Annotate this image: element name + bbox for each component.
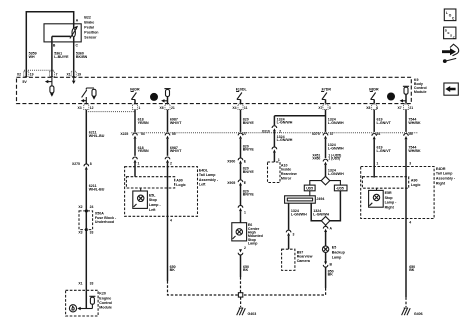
svg-text:1: 1 xyxy=(376,161,378,165)
svg-text:19: 19 xyxy=(30,72,34,76)
svg-text:WH/L-BU: WH/L-BU xyxy=(89,134,105,138)
svg-text:X4: X4 xyxy=(232,106,236,110)
svg-text:BK: BK xyxy=(170,268,176,272)
svg-text:Module: Module xyxy=(99,306,112,310)
svg-text:Stop: Stop xyxy=(149,198,158,202)
svg-text:Stop: Stop xyxy=(385,196,394,200)
svg-text:X275: X275 xyxy=(72,162,80,166)
svg-text:4: 4 xyxy=(376,106,378,110)
svg-text:Assembly -: Assembly - xyxy=(199,178,219,182)
svg-text:UD5: UD5 xyxy=(306,187,313,191)
svg-text:A10: A10 xyxy=(281,163,288,167)
svg-text:L-GN/VT: L-GN/VT xyxy=(377,149,392,153)
svg-text:21: 21 xyxy=(171,106,175,110)
svg-text:A90: A90 xyxy=(176,178,183,182)
svg-text:BK: BK xyxy=(243,268,249,272)
svg-text:G406: G406 xyxy=(414,312,423,316)
svg-text:Lamp -: Lamp - xyxy=(385,201,398,205)
svg-text:33: 33 xyxy=(90,231,94,235)
svg-text:YE/BN: YE/BN xyxy=(138,121,149,125)
svg-text:F8DR: F8DR xyxy=(369,87,379,91)
svg-text:WH/VT: WH/VT xyxy=(170,149,182,153)
svg-text:X7: X7 xyxy=(398,106,402,110)
svg-text:L-GN/WH: L-GN/WH xyxy=(277,121,293,125)
svg-text:E4DR: E4DR xyxy=(436,167,446,171)
svg-text:X310: X310 xyxy=(262,130,270,134)
svg-text:Lamp -: Lamp - xyxy=(149,203,162,207)
svg-text:L: L xyxy=(446,11,448,15)
svg-text:X3: X3 xyxy=(78,231,82,235)
svg-text:X275: X275 xyxy=(312,132,320,136)
svg-text:Backup: Backup xyxy=(332,251,346,255)
svg-text:X7: X7 xyxy=(318,106,322,110)
svg-text:L-GN/WH: L-GN/WH xyxy=(328,121,344,125)
svg-text:Sensor: Sensor xyxy=(84,36,97,40)
svg-text:-UD5: -UD5 xyxy=(336,187,344,191)
svg-text:Tail Lamp: Tail Lamp xyxy=(199,173,216,177)
svg-text:Logic: Logic xyxy=(176,183,186,187)
svg-text:Pedal: Pedal xyxy=(84,26,94,30)
svg-text:Tail Lamp: Tail Lamp xyxy=(436,172,453,176)
svg-text:X2: X2 xyxy=(78,205,82,209)
svg-text:L-GN/WH: L-GN/WH xyxy=(277,138,293,142)
svg-text:Rearview: Rearview xyxy=(281,172,297,176)
svg-text:X900: X900 xyxy=(227,159,235,163)
svg-text:E5R: E5R xyxy=(385,191,392,195)
svg-text:F10DL: F10DL xyxy=(236,87,248,91)
svg-text:X225: X225 xyxy=(120,132,128,136)
svg-text:54: 54 xyxy=(377,132,381,136)
svg-text:2: 2 xyxy=(279,130,281,134)
svg-text:WH/L-BU: WH/L-BU xyxy=(89,187,105,191)
svg-text:F6DR: F6DR xyxy=(130,87,140,91)
svg-text:X1: X1 xyxy=(67,72,71,76)
svg-text:3: 3 xyxy=(329,106,331,110)
svg-text:1: 1 xyxy=(244,211,246,215)
svg-text:Position: Position xyxy=(84,31,98,35)
svg-text:X6: X6 xyxy=(160,106,164,110)
svg-text:L-GN/WH: L-GN/WH xyxy=(328,172,344,176)
svg-text:Control: Control xyxy=(99,301,112,305)
svg-text:8: 8 xyxy=(90,162,92,166)
svg-text:J494: J494 xyxy=(316,197,324,201)
svg-text:WH/BK: WH/BK xyxy=(408,121,421,125)
svg-text:2: 2 xyxy=(170,162,172,166)
svg-text:L-GN/VT: L-GN/VT xyxy=(377,121,392,125)
svg-text:55: 55 xyxy=(172,132,176,136)
svg-text:Right: Right xyxy=(385,206,395,210)
svg-text:4: 4 xyxy=(409,221,411,225)
svg-text:X450: X450 xyxy=(312,157,320,161)
svg-text:BK/BN: BK/BN xyxy=(76,55,88,59)
svg-text:3: 3 xyxy=(409,161,411,165)
svg-text:F7DR: F7DR xyxy=(322,87,332,91)
svg-text:Right: Right xyxy=(436,181,446,185)
svg-text:X8: X8 xyxy=(366,106,370,110)
svg-text:Camera: Camera xyxy=(297,259,311,263)
svg-text:Engine: Engine xyxy=(99,296,111,300)
svg-text:5V: 5V xyxy=(22,80,27,84)
svg-text:54: 54 xyxy=(141,132,145,136)
svg-text:21: 21 xyxy=(409,106,413,110)
svg-text:37: 37 xyxy=(330,132,334,136)
svg-text:1: 1 xyxy=(138,162,140,166)
svg-text:L-BU/YE: L-BU/YE xyxy=(54,55,69,59)
svg-text:Lamp: Lamp xyxy=(332,255,342,259)
svg-text:2: 2 xyxy=(244,246,246,250)
svg-text:E5: E5 xyxy=(332,246,336,250)
svg-text:A90: A90 xyxy=(411,178,418,182)
svg-text:BN/YE: BN/YE xyxy=(243,121,255,125)
svg-text:Module: Module xyxy=(414,90,427,94)
svg-text:33: 33 xyxy=(90,281,94,285)
svg-text:E4DL: E4DL xyxy=(199,168,209,172)
svg-text:19: 19 xyxy=(77,72,81,76)
svg-text:BN/YE: BN/YE xyxy=(243,193,255,197)
svg-text:11: 11 xyxy=(244,106,248,110)
svg-text:1 (UD5): 1 (UD5) xyxy=(328,157,340,161)
svg-text:Left: Left xyxy=(149,208,156,212)
svg-text:L-GN/WH: L-GN/WH xyxy=(291,212,307,216)
svg-text:BK: BK xyxy=(409,268,415,272)
svg-text:X2: X2 xyxy=(17,72,21,76)
svg-text:X905: X905 xyxy=(227,181,235,185)
svg-text:7: 7 xyxy=(56,72,58,76)
svg-text:K20: K20 xyxy=(99,292,106,296)
svg-text:L-GN/WH: L-GN/WH xyxy=(313,212,329,216)
svg-text:Underhood: Underhood xyxy=(95,220,114,224)
svg-text:Inside: Inside xyxy=(281,168,291,172)
svg-text:24: 24 xyxy=(90,205,94,209)
svg-text:BN/YE: BN/YE xyxy=(243,148,255,152)
svg-text:YE/BN: YE/BN xyxy=(138,149,149,153)
svg-text:3: 3 xyxy=(293,233,295,237)
svg-text:4: 4 xyxy=(170,219,172,223)
svg-text:Brake: Brake xyxy=(84,21,94,25)
svg-text:1: 1 xyxy=(278,158,280,162)
svg-text:Left: Left xyxy=(199,183,206,187)
svg-text:55: 55 xyxy=(409,132,413,136)
svg-text:L-GN/WH: L-GN/WH xyxy=(328,146,344,150)
svg-text:G403: G403 xyxy=(248,312,257,316)
svg-text:WH/BK: WH/BK xyxy=(408,149,421,153)
svg-text:BK: BK xyxy=(328,273,334,277)
svg-text:X1: X1 xyxy=(78,281,82,285)
svg-text:WH/VT: WH/VT xyxy=(170,121,182,125)
svg-text:Assembly -: Assembly - xyxy=(436,177,456,181)
svg-text:Lamp: Lamp xyxy=(248,242,258,246)
svg-text:WH: WH xyxy=(29,55,35,59)
svg-text:E5L: E5L xyxy=(149,193,156,197)
svg-text:Logic: Logic xyxy=(411,183,421,187)
svg-text:12: 12 xyxy=(90,106,94,110)
svg-text:1: 1 xyxy=(138,106,140,110)
svg-text:B22: B22 xyxy=(84,16,91,20)
svg-text:BN/YE: BN/YE xyxy=(243,170,255,174)
svg-text:27: 27 xyxy=(243,132,247,136)
svg-text:X3: X3 xyxy=(78,106,82,110)
svg-text:Mirror: Mirror xyxy=(281,177,292,181)
